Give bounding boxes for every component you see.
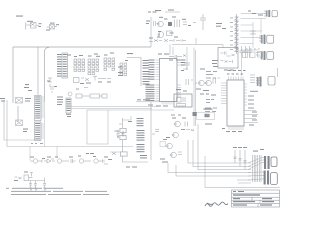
- opamp stage A1: [30, 159, 42, 163]
- A2 labels: [47, 157, 58, 158]
- capacitor C1: [200, 14, 206, 30]
- small filter boxes row: [76, 94, 107, 98]
- transistor Q4: [205, 80, 212, 86]
- scribble above filters: [68, 88, 88, 96]
- cap C32 to ground: [43, 178, 46, 191]
- switch S2 label: [23, 129, 28, 133]
- wire: bus b1: [188, 140, 251, 163]
- wire: main top border: [13, 46, 151, 48]
- Q7 labels: [80, 82, 111, 85]
- resistor network RN2: [88, 59, 99, 75]
- wire: vertical x122.5: [123, 118, 149, 162]
- D4 labels: [117, 121, 132, 138]
- jack J6: [262, 156, 277, 169]
- cap C8: [250, 31, 256, 34]
- wire: vertical x151 top: [150, 17, 152, 47]
- switch S1 top-left circuit: [47, 25, 58, 30]
- diode D5: [120, 152, 128, 157]
- wire: bus b2: [193, 140, 251, 167]
- U1 right pin stubs lower: [177, 85, 181, 98]
- U2 top pin labels row0: [228, 70, 246, 71]
- resistor network RN4: [120, 63, 127, 75]
- net label rows x136 group3: [137, 144, 148, 158]
- A1 labels: [30, 157, 45, 160]
- jack J7: [262, 171, 277, 185]
- FB1 labels: [169, 60, 181, 61]
- wire: jack feed top: [241, 13, 265, 15]
- TVS ladder D10-D18: [235, 14, 239, 54]
- U1 bottom pin stubs: [162, 102, 172, 105]
- bottom labels: [160, 137, 170, 163]
- bundle labels: [253, 149, 264, 152]
- U1 left pin labels lower: [146, 85, 155, 101]
- net labels left of U6: [57, 97, 63, 106]
- module outline PCB2: [87, 110, 108, 144]
- transistor Q2: [158, 31, 172, 37]
- Q8 label box: [160, 142, 166, 147]
- jack J2: [264, 10, 277, 17]
- capacitor C10 cluster: [48, 78, 54, 93]
- zener D2 row: [149, 39, 186, 42]
- wire: ladder taps: [241, 19, 267, 51]
- wire: branch down to J1 stub rail: [45, 48, 50, 103]
- stub top-right corner: [277, 68, 279, 77]
- R labels at wire ends: [249, 112, 257, 126]
- wire: rail into osc box: [222, 45, 224, 48]
- R labels: [182, 19, 191, 26]
- wire: vertical x253: [252, 22, 254, 48]
- wire: rail stubs x170 x173: [170, 45, 173, 56]
- ladder labels text: [248, 11, 263, 16]
- label box right: [197, 113, 215, 120]
- bus label over wire: [137, 99, 150, 100]
- connector J1 upper half: [35, 96, 45, 121]
- transistor Q5: [174, 121, 188, 127]
- analog chain drop 2: [56, 147, 58, 159]
- opamp stage A4: [88, 159, 108, 164]
- wire: drop x187: [186, 47, 188, 70]
- label rows near box: [204, 109, 213, 125]
- capacitor C10 labels: [47, 81, 57, 88]
- label over top feed: [155, 10, 174, 12]
- U1 left pin labels upper: [149, 60, 155, 80]
- U2 top pin stubs: [229, 77, 244, 81]
- wire: RN4 feed corner: [127, 58, 142, 87]
- terminal block U6: [66, 98, 71, 113]
- resistor network RN1: [74, 59, 85, 71]
- small parts above D4: [114, 124, 122, 132]
- A3 labels: [69, 156, 81, 158]
- J1 bottom labels: [31, 143, 43, 144]
- crystal shield box Y1: [174, 94, 192, 107]
- crystal labels: [176, 89, 187, 92]
- wire: J1 bottom feed: [44, 102, 46, 147]
- oscillator contents row1: [221, 52, 235, 57]
- transistor Q6: [172, 130, 194, 138]
- signature scribble: [205, 202, 228, 206]
- transistor Q3: [198, 80, 205, 86]
- cap C31 to ground: [34, 181, 37, 191]
- opamp stage A3: [66, 159, 88, 163]
- net label rows right of x141 wire: [143, 60, 150, 85]
- Q2 labels: [158, 31, 174, 34]
- extra net labels right: [212, 60, 218, 67]
- wire: inner top rail A: [172, 44, 223, 46]
- transistor Q8: [166, 143, 173, 149]
- relay K1 top-left circuit: [26, 23, 40, 30]
- IC U5 regulator block: [57, 53, 68, 78]
- resistor network RN3: [104, 58, 115, 70]
- small parts x155: [152, 130, 159, 135]
- wire: bus b8: [238, 182, 251, 184]
- opamp stage A2: [44, 159, 66, 163]
- microphone MK1: [15, 173, 34, 181]
- notes paragraph line 1: [6, 188, 63, 189]
- crystal Y1 body: [177, 97, 186, 106]
- RN2 labels: [88, 54, 100, 57]
- U2 right labels: [248, 91, 258, 109]
- notes paragraph line 3: [11, 194, 109, 195]
- wire: fuse to switch: [17, 106, 19, 122]
- wire: horizontal bus y106: [71, 106, 158, 108]
- wire: inner rail drop x196: [195, 38, 197, 45]
- net label rows x136 group1: [137, 118, 144, 126]
- wire: bus drop x205: [204, 156, 206, 188]
- cap C5: [183, 63, 190, 70]
- Q5 labels: [172, 118, 186, 119]
- wire: vertical pair x194.5: [194, 48, 195, 127]
- RN3 labels: [104, 53, 114, 56]
- caps right of osc box: [240, 46, 252, 58]
- cap CB3: [244, 150, 247, 170]
- caps C20 C21: [117, 131, 125, 138]
- cluster marks: [163, 115, 185, 141]
- diode D4 pair: [120, 128, 127, 140]
- D2 labels: [149, 37, 178, 39]
- net label rows x136 group2: [137, 130, 145, 141]
- cable bundle W1: [253, 155, 262, 182]
- fuse F1: [16, 98, 23, 104]
- RN4 labels: [118, 60, 128, 76]
- switch S1 labels: [46, 23, 59, 31]
- oscillator label: [224, 70, 234, 71]
- switch S2: [16, 120, 23, 126]
- connector J1 lower half: [35, 122, 45, 141]
- wire: drop to J3: [260, 19, 262, 35]
- U2 right wires to R labels: [244, 111, 258, 123]
- jack J3: [259, 35, 274, 45]
- U2 left pin stubs: [221, 83, 227, 104]
- transistor Q7 cluster below RN1: [74, 77, 112, 83]
- wire: left signal return B: [7, 100, 133, 147]
- wire: top feed: [165, 11, 180, 13]
- resistor stack left of J5: [250, 75, 255, 83]
- relay K1 labels: [27, 21, 42, 27]
- cap C30 to ground: [29, 181, 32, 191]
- wire: corner at x122 top: [123, 116, 132, 120]
- marks above: [146, 19, 168, 25]
- cluster labels: [159, 17, 176, 18]
- wire: y152 stub: [110, 151, 123, 153]
- cap row labels: [233, 147, 247, 148]
- transistor Q9: [170, 152, 182, 158]
- transistor Q1: [157, 21, 163, 27]
- MK1 label: [14, 172, 28, 182]
- wire: bus b3: [198, 124, 251, 170]
- label VIN: [148, 12, 157, 13]
- dark label in box: [205, 114, 210, 117]
- notes paragraph line 2: [11, 191, 107, 192]
- cap CB1: [234, 150, 237, 163]
- title block text: [233, 191, 274, 206]
- U1 right labels upper: [181, 60, 186, 66]
- bus origin marks: [126, 167, 137, 168]
- U6 lower marks: [66, 114, 71, 117]
- wire: vertical x151 lower: [150, 102, 152, 160]
- wire: bus b7: [205, 187, 280, 189]
- jack J5: [256, 77, 275, 87]
- cap CB2: [239, 150, 242, 167]
- analog chain input drop: [29, 147, 31, 161]
- U2 right short stubs: [244, 84, 247, 105]
- wire: left border vertical: [12, 47, 14, 103]
- diode D1 dark: [168, 22, 172, 26]
- node label VBAT: [24, 84, 32, 91]
- U2 left pin labels: [205, 71, 217, 116]
- RN1 labels: [67, 55, 83, 58]
- wire: horizontal bus y112: [108, 109, 174, 111]
- U2 bottom pin stubs: [229, 126, 243, 130]
- parts right of Q4: [213, 78, 220, 84]
- wire: cap rail to U2: [241, 58, 243, 77]
- IC U2: [227, 80, 244, 126]
- U1 top labels: [158, 54, 169, 55]
- wire: mic rail: [29, 180, 45, 182]
- U1 bottom labels: [148, 105, 168, 107]
- RN4 feed label: [127, 53, 133, 54]
- ladder left labels: [230, 18, 233, 50]
- bundle fan wires: [248, 158, 262, 181]
- wire: horizontal bus y108.5: [71, 108, 152, 110]
- filter boxes row: [243, 52, 263, 58]
- wire: vertical feed to J1: [37, 47, 39, 95]
- U1 left pin stubs: [156, 60, 160, 100]
- IC U1: [160, 59, 178, 102]
- wire: bus b6: [237, 179, 251, 181]
- labels left of ladder: [216, 23, 226, 29]
- resistor R3 R4: [175, 20, 197, 28]
- parts left of Q3: [186, 79, 197, 85]
- pin marks row: [246, 48, 260, 51]
- Q3 Q4 labels: [181, 69, 209, 92]
- wire: bus b4: [168, 163, 251, 173]
- wire: bus drop at x70: [70, 103, 72, 109]
- oscillator contents row2: [221, 60, 233, 63]
- jack J4: [256, 51, 274, 60]
- A4 labels: [86, 153, 112, 160]
- wire: bus under U1: [136, 101, 160, 103]
- D5 parts left: [112, 152, 116, 155]
- ferrite FB1 cluster: [169, 55, 186, 59]
- fuse F1 label: [0, 98, 31, 102]
- junction block: [193, 112, 198, 116]
- U2 top pin labels: [227, 74, 243, 75]
- U1 right pin stubs upper: [177, 60, 180, 65]
- input parts: [154, 21, 159, 26]
- label row T: [200, 94, 216, 96]
- wire: bus b5: [176, 165, 251, 176]
- U2 bottom labels: [222, 128, 242, 132]
- note text top-left corner: [16, 16, 23, 17]
- wire: left signal return A: [4, 100, 35, 140]
